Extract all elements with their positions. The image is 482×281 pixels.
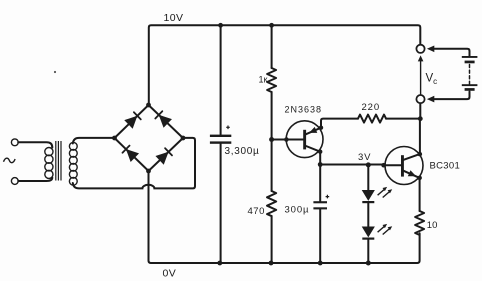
svg-text:300µ: 300µ	[285, 205, 310, 216]
svg-text:1к: 1к	[259, 75, 268, 85]
svg-text:220: 220	[362, 102, 381, 113]
svg-text:10: 10	[427, 220, 438, 231]
svg-text:3,300µ: 3,300µ	[225, 146, 260, 157]
svg-text:3V: 3V	[358, 152, 371, 163]
svg-text:470: 470	[248, 206, 265, 217]
svg-text:Vc: Vc	[426, 73, 438, 87]
svg-text:2N3638: 2N3638	[285, 105, 323, 115]
svg-text:0V: 0V	[163, 268, 177, 280]
svg-text:BC301: BC301	[430, 161, 461, 172]
svg-text:10V: 10V	[164, 12, 184, 24]
